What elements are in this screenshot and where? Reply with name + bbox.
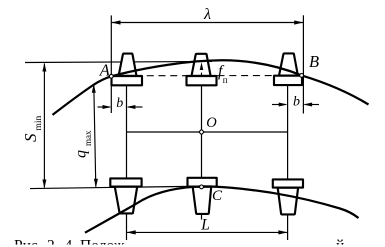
horizontal centerline through O	[127, 131, 288, 133]
svg-text:b: b	[116, 96, 123, 111]
bottom tooth B2 (center)	[188, 178, 217, 214]
svg-text:max: max	[83, 130, 93, 146]
svg-text:B: B	[309, 52, 319, 71]
dashed chord line A-B	[111, 75, 301, 77]
dimension lambda line	[111, 20, 303, 24]
top tooth T2 (center)	[187, 54, 217, 86]
node B	[300, 74, 304, 78]
node C	[200, 185, 204, 189]
vertical centerline right tooth (x=287.6)	[287, 85, 289, 240]
bottom reference line (lower datum)	[30, 186, 217, 189]
top reference line (S_min upper datum)	[25, 61, 212, 62]
S_min dimension	[42, 63, 46, 189]
top tooth T3 (right)	[274, 53, 302, 85]
top chain curve	[53, 60, 369, 115]
f_p sag arrow in center tooth	[200, 62, 204, 76]
svg-text:п: п	[223, 75, 228, 85]
top tooth T1 (left)	[112, 54, 143, 86]
extension line A (x=111.3)	[110, 15, 112, 113]
vertical centerline left tooth (x=126.5)	[126, 86, 128, 241]
b dimension right	[272, 103, 319, 107]
bottom tooth B1 (left)	[110, 178, 141, 213]
node A	[109, 74, 113, 78]
svg-text:O: O	[206, 115, 217, 131]
bottom chain curve	[85, 186, 359, 232]
svg-text:L: L	[200, 216, 210, 233]
q_max dimension	[92, 84, 98, 188]
svg-text:q: q	[73, 150, 90, 158]
vertical centerline middle (x=201.5)	[201, 86, 203, 220]
svg-text:b: b	[293, 95, 300, 110]
node O (small diamond)	[199, 129, 204, 134]
white page-cut cover	[0, 245, 385, 247]
bottom tooth B3 (right)	[273, 179, 303, 214]
extension line B (x=303.4)	[302, 15, 304, 113]
svg-text:λ: λ	[203, 6, 211, 23]
label q_max (rotated)	[73, 130, 93, 158]
b dimension left	[98, 105, 143, 109]
L dimension	[127, 230, 288, 234]
svg-text:C: C	[212, 188, 223, 204]
svg-text:A: A	[99, 60, 111, 79]
svg-text:S: S	[21, 133, 40, 142]
label S_min (rotated)	[21, 115, 44, 142]
svg-text:min: min	[34, 115, 44, 130]
